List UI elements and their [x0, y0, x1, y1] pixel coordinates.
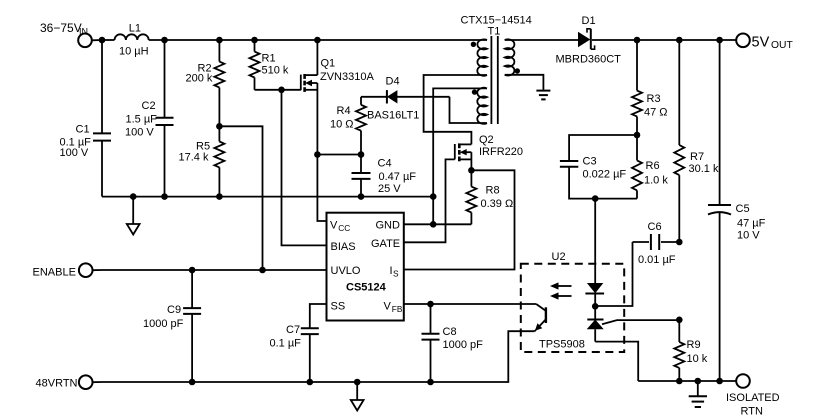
- resistor R6 1.0k: [632, 135, 642, 199]
- transistor Q2 IRFR220: [455, 143, 472, 170]
- wire: divider to UVLO line: [219, 126, 262, 270]
- svg-text:R7: R7: [690, 151, 704, 163]
- svg-text:L1: L1: [129, 23, 141, 35]
- label D1: [556, 15, 622, 65]
- wire: top rail to transformer: [149, 39, 487, 41]
- terminal ENABLE: [79, 263, 102, 277]
- resistor R4 10ohm: [356, 97, 366, 155]
- label D4: [367, 75, 419, 121]
- label 36-75VIN: [40, 21, 88, 37]
- svg-text:BIAS: BIAS: [331, 241, 356, 253]
- resistor R7 30.1k: [674, 40, 684, 242]
- ground: isolated 3-bar: [689, 381, 707, 407]
- svg-text:R6: R6: [646, 160, 660, 172]
- node: R9 bottom: [676, 378, 683, 385]
- node: gnd triangle junction: [354, 379, 361, 386]
- svg-text:C7: C7: [286, 324, 300, 336]
- node: LED-zener junction: [592, 303, 599, 310]
- wire: isolated output rail: [638, 380, 736, 382]
- capacitor C9 1000pF: [183, 270, 201, 382]
- svg-text:Q1: Q1: [321, 57, 336, 69]
- label R2: [186, 63, 213, 85]
- node: R4-C4 junction: [358, 151, 365, 158]
- svg-text:D4: D4: [386, 75, 400, 87]
- capacitor C6 0.01uF: [598, 234, 679, 306]
- label R5: [179, 140, 211, 163]
- svg-text:OUT: OUT: [771, 40, 793, 51]
- label R4: [330, 105, 354, 130]
- label R3: [644, 93, 668, 118]
- label C4: [378, 158, 417, 195]
- node: C5 top junction: [716, 37, 723, 44]
- capacitor C3 0.022uF: [560, 135, 637, 199]
- wire: GND pin to R8 bottom: [404, 223, 472, 225]
- label C5: [736, 203, 766, 241]
- node: Q2 source / R8 junction: [468, 167, 475, 174]
- svg-text:R8: R8: [486, 185, 500, 197]
- svg-text:1000 pF: 1000 pF: [143, 318, 184, 330]
- resistor R8 0.39ohm: [466, 170, 476, 224]
- label U2: [539, 251, 585, 351]
- transformer T1 secondary winding: [505, 39, 515, 75]
- label ISOLATED RTN: [726, 392, 780, 418]
- svg-text:ISOLATED: ISOLATED: [726, 392, 780, 404]
- node: R1 top junction: [251, 37, 258, 44]
- svg-text:C4: C4: [378, 158, 392, 170]
- svg-text:17.4 k: 17.4 k: [179, 151, 209, 163]
- wire: Q2 gate to GATE pin: [404, 159, 455, 242]
- wire: aux top to GND pin column: [433, 88, 487, 224]
- wire: VCC node down to VCC pin: [317, 155, 326, 222]
- svg-text:30.1 k: 30.1 k: [689, 163, 719, 175]
- label R8: [481, 185, 514, 210]
- node: divider junction on UVLO line: [259, 267, 266, 274]
- node: C9 bottom: [189, 379, 196, 386]
- node: Q1 source / VCC node: [314, 151, 321, 158]
- label C2: [125, 100, 157, 139]
- resistor R2 200k: [214, 40, 224, 126]
- wire: 48VRTN rail: [102, 331, 535, 382]
- node: iso ground junction: [695, 378, 702, 385]
- node: C9 top junction: [189, 267, 196, 274]
- svg-text:10 V: 10 V: [737, 229, 760, 241]
- svg-text:U2: U2: [552, 251, 566, 263]
- svg-text:BAS16LT1: BAS16LT1: [367, 109, 419, 121]
- node: C2 gnd: [161, 193, 168, 200]
- wire: secondary top rail through D1 to output: [505, 39, 737, 41]
- wire: LED feed down: [594, 199, 596, 283]
- op-amp U1 CS5124 IC box: [327, 213, 404, 321]
- wire: ENABLE to UVLO pin: [102, 269, 327, 271]
- node: L1 out junction: [161, 37, 168, 44]
- svg-text:C2: C2: [142, 100, 156, 112]
- node: VIN junction: [99, 37, 106, 44]
- resistor R5 17.4k: [214, 126, 224, 196]
- label C9: [143, 304, 184, 330]
- diode U2 zener reference: [587, 306, 604, 341]
- svg-text:TPS5908: TPS5908: [539, 339, 585, 351]
- node: R3-R6 junction: [634, 132, 641, 139]
- svg-text:C1: C1: [76, 124, 90, 136]
- label R7: [689, 151, 719, 175]
- svg-text:10 Ω: 10 Ω: [330, 118, 354, 130]
- capacitor C8 1000pF: [422, 304, 440, 382]
- svg-text:SS: SS: [331, 301, 346, 313]
- node: primary polarity dot: [471, 42, 476, 47]
- terminal 48VRTN: [79, 375, 102, 389]
- label 5VOUT: [752, 34, 794, 51]
- svg-text:GND: GND: [376, 220, 401, 232]
- label 48VRTN: [36, 378, 78, 390]
- node: aux winding gnd: [430, 193, 437, 200]
- capacitor C5 47uF 10V polarized: [708, 40, 731, 381]
- svg-text:C8: C8: [443, 326, 457, 338]
- transformer T1 primary winding: [477, 39, 487, 75]
- label R9: [687, 339, 708, 365]
- label C3: [583, 155, 627, 180]
- svg-text:0.39 Ω: 0.39 Ω: [481, 198, 514, 210]
- svg-text:10 µH: 10 µH: [119, 46, 149, 58]
- svg-text:S: S: [393, 268, 399, 278]
- label Q1: [320, 57, 374, 83]
- node: C8 bottom: [427, 379, 434, 386]
- transformer T1 aux winding: [477, 88, 487, 124]
- svg-text:Q2: Q2: [479, 134, 494, 146]
- node: C5 bottom: [716, 378, 723, 385]
- svg-text:ZVN3310A: ZVN3310A: [320, 71, 374, 83]
- svg-text:0.1 µF: 0.1 µF: [270, 338, 302, 350]
- node: C8 top junction: [427, 301, 434, 308]
- wire: VCC node to R4/C4 node: [317, 154, 361, 156]
- node: R7 top junction: [676, 37, 683, 44]
- node: R2-R5 divider: [216, 123, 223, 130]
- ground: 48VRTN chassis triangle: [351, 382, 364, 411]
- svg-text:48VRTN: 48VRTN: [36, 378, 78, 390]
- capacitor C7 0.1uF: [301, 328, 319, 382]
- svg-text:C5: C5: [736, 203, 750, 215]
- svg-text:C3: C3: [583, 155, 597, 167]
- wire: primary bottom to Q2 drain: [424, 75, 487, 144]
- wire: current sense to Is pin: [404, 170, 515, 269]
- svg-text:200 k: 200 k: [186, 73, 213, 85]
- svg-text:UVLO: UVLO: [331, 265, 361, 277]
- svg-text:1.5 µF: 1.5 µF: [126, 113, 158, 125]
- node: C4 gnd: [358, 193, 365, 200]
- resistor R9 10k: [674, 320, 684, 381]
- wire: top rail left segment: [102, 39, 115, 41]
- svg-text:R3: R3: [647, 93, 661, 105]
- wire: primary ground rail: [102, 196, 433, 198]
- capacitor C1 0.1uF 100V: [93, 40, 111, 197]
- wire: SS pin to C7: [310, 304, 327, 328]
- label T1 CTX15-14514: [461, 15, 532, 38]
- node: R3 top junction: [634, 37, 641, 44]
- svg-text:0.022 µF: 0.022 µF: [583, 169, 627, 181]
- label L1: [119, 23, 149, 58]
- node: Q1 drain junction: [314, 37, 321, 44]
- node: R5 gnd: [216, 193, 223, 200]
- label CS5124 pins: [330, 220, 403, 315]
- label ENABLE: [33, 266, 76, 278]
- svg-text:R4: R4: [337, 105, 351, 117]
- wire: bias feed down to BIAS pin: [282, 90, 327, 246]
- svg-text:100 V: 100 V: [125, 126, 154, 138]
- transformer T1 core: [491, 36, 497, 124]
- capacitor C2 1.5uF 100V: [156, 40, 174, 197]
- wire: VFB to optocoupler: [404, 303, 536, 305]
- svg-text:MBRD360CT: MBRD360CT: [556, 53, 622, 65]
- svg-text:D1: D1: [582, 15, 596, 27]
- terminal VIN 36-75V: [78, 34, 102, 48]
- node: reference junction: [676, 317, 683, 324]
- terminal ISOLATED RTN: [736, 374, 750, 388]
- inductor L1 10uH: [115, 34, 149, 40]
- node: secondary polarity dot: [515, 68, 520, 73]
- svg-text:25 V: 25 V: [378, 183, 401, 195]
- transistor U2 photo output: [535, 304, 546, 331]
- wire: R1 to Q1 gate: [255, 89, 301, 91]
- svg-text:C9: C9: [167, 304, 181, 316]
- label R6: [644, 160, 668, 186]
- node: LED feed junction: [592, 195, 599, 202]
- svg-text:0.01 µF: 0.01 µF: [638, 254, 676, 266]
- label C1: [60, 124, 92, 160]
- wire: D4 to aux winding bottom: [450, 97, 488, 123]
- svg-text:36−75V: 36−75V: [40, 21, 82, 35]
- ground: primary chassis triangle: [127, 197, 140, 235]
- svg-text:IN: IN: [79, 27, 88, 37]
- svg-text:V: V: [330, 220, 338, 232]
- svg-text:1.0 k: 1.0 k: [644, 175, 668, 187]
- svg-text:R9: R9: [687, 339, 701, 351]
- resistor R1 510k: [250, 40, 260, 90]
- terminal 5VOUT: [736, 34, 750, 48]
- svg-text:1000 pF: 1000 pF: [443, 339, 484, 351]
- svg-text:5V: 5V: [752, 34, 770, 50]
- node: gate-bias junction: [278, 87, 285, 94]
- label Q2: [479, 134, 523, 158]
- svg-text:IRFR220: IRFR220: [479, 146, 523, 158]
- svg-text:100 V: 100 V: [60, 147, 89, 159]
- svg-text:RTN: RTN: [741, 406, 763, 418]
- node: C1 gnd: [130, 193, 137, 200]
- svg-text:CC: CC: [338, 223, 350, 233]
- wire: zener anode to isolated rail: [595, 342, 638, 381]
- diode D1 MBRD360CT schottky: [578, 29, 595, 49]
- diode D4 BAS16LT1: [361, 90, 450, 103]
- svg-text:R1: R1: [262, 53, 276, 65]
- svg-text:0.47 µF: 0.47 µF: [379, 171, 417, 183]
- light arrows: [550, 282, 572, 299]
- node: GND-aux junction: [430, 221, 437, 228]
- wire: secondary bottom to ground: [505, 75, 544, 90]
- svg-text:FB: FB: [392, 304, 403, 314]
- svg-text:CS5124: CS5124: [346, 281, 387, 293]
- svg-text:T1: T1: [488, 25, 501, 37]
- node: R2 top junction: [216, 37, 223, 44]
- svg-text:47 Ω: 47 Ω: [644, 106, 668, 118]
- node: C7 bottom: [307, 379, 314, 386]
- svg-text:47 µF: 47 µF: [737, 218, 766, 230]
- label C7: [270, 324, 302, 350]
- svg-text:510 k: 510 k: [262, 65, 289, 77]
- label R1: [262, 53, 289, 77]
- svg-text:V: V: [384, 301, 392, 313]
- label C8: [443, 326, 484, 351]
- svg-text:GATE: GATE: [371, 238, 400, 250]
- resistor R3 47ohm: [632, 40, 642, 135]
- optocoupler U2 TPS5908 dashed box: [521, 264, 624, 352]
- label C6: [638, 221, 676, 266]
- node: aux polarity dot: [472, 89, 477, 94]
- wire: reference tap: [602, 320, 679, 324]
- svg-text:ENABLE: ENABLE: [33, 266, 76, 278]
- diode U2 LED: [585, 283, 604, 306]
- transistor Q1 ZVN3310A: [301, 40, 318, 155]
- node: C6-R7 junction: [676, 239, 683, 246]
- svg-text:C6: C6: [648, 221, 662, 233]
- svg-text:10 k: 10 k: [687, 353, 708, 365]
- ground: secondary 3-bar: [536, 91, 550, 100]
- capacitor C4 0.47uF 25V: [352, 155, 371, 197]
